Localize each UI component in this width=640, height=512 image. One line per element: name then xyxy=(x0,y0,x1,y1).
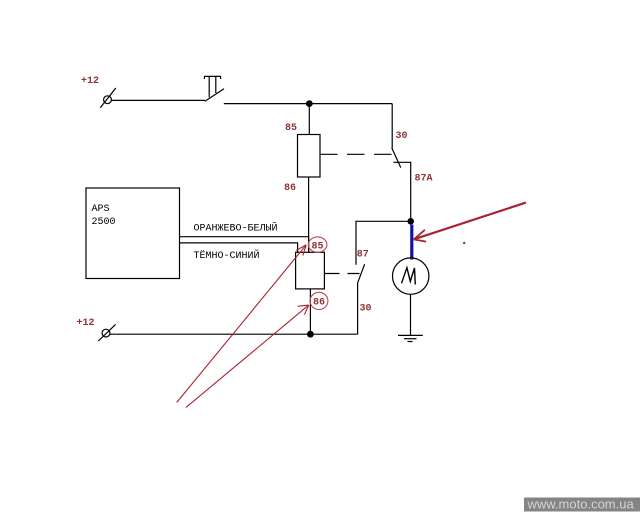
dark-blue wire from APS to K2 coil xyxy=(180,243,298,252)
svg-text:2500: 2500 xyxy=(92,217,116,228)
wire from push button to node A and relay K1 terminal 30 xyxy=(224,103,392,105)
svg-text:APS: APS xyxy=(92,204,110,215)
orange-white wire from APS to K2 pin 85 xyxy=(180,237,309,253)
motor M glyph xyxy=(402,268,416,285)
svg-text:+12: +12 xyxy=(81,76,99,87)
supply connector bottom (circle with slash) xyxy=(98,324,115,341)
svg-text:ОРАНЖЕВО-БЕЛЫЙ: ОРАНЖЕВО-БЕЛЫЙ xyxy=(194,221,278,235)
svg-text:85: 85 xyxy=(285,123,297,134)
motor M1 circle xyxy=(393,258,429,294)
wire from top connector to push button xyxy=(112,99,206,101)
wire K2 30 terminal down to bottom rail xyxy=(357,283,359,334)
junction node B (87A / motor / K2-87) xyxy=(407,218,414,225)
relay K1 coil xyxy=(298,135,321,178)
svg-text:87A: 87A xyxy=(415,174,433,185)
relay K2 coil xyxy=(296,252,325,289)
ground symbol xyxy=(398,335,423,341)
svg-text:85: 85 xyxy=(312,241,324,252)
push button SB1 xyxy=(204,76,224,101)
svg-text:ТЁМНО-СИНИЙ: ТЁМНО-СИНИЙ xyxy=(194,248,260,262)
junction node A xyxy=(306,100,313,107)
svg-text:86: 86 xyxy=(313,298,325,309)
circled label 85 (K2 coil) xyxy=(308,237,327,252)
circled label 86 (K2 coil) xyxy=(310,292,328,309)
wire K2 coil bottom to bottom rail xyxy=(309,289,311,334)
mechanical link K2 (dashed) xyxy=(325,273,360,275)
red annotation arrow to blue wire xyxy=(414,203,526,242)
K2 movable contact blade xyxy=(357,264,364,283)
wire K1 coil bottom down to K2 area xyxy=(308,177,310,252)
wire node B to K2 87 terminal xyxy=(356,221,411,264)
svg-text:86: 86 xyxy=(284,183,296,194)
svg-text:87: 87 xyxy=(357,250,369,261)
APS 2500 control unit box xyxy=(86,188,180,279)
wire node A down to K1 coil xyxy=(308,104,310,135)
svg-text:+12: +12 xyxy=(77,318,95,329)
K1 movable contact blade xyxy=(392,148,401,168)
blue wire to motor xyxy=(410,225,413,260)
mechanical link K1 (dashed) xyxy=(320,153,394,155)
bottom +12 rail wire xyxy=(110,333,358,335)
red annotation arrow to circled 86 xyxy=(186,305,309,407)
svg-text:30: 30 xyxy=(396,131,408,142)
K1 fixed contact 87A wire xyxy=(393,162,410,221)
red annotation arrow to circled 85 xyxy=(177,245,307,403)
watermark bar www.moto.com.ua xyxy=(524,498,640,512)
stray ink dot xyxy=(463,242,465,244)
svg-text:www.moto.com.ua: www.moto.com.ua xyxy=(527,497,635,512)
junction node C (K2 coil to rail) xyxy=(307,331,314,338)
wire 30 down (K1 contact common) xyxy=(391,104,393,149)
wire motor to ground xyxy=(410,294,412,335)
svg-text:30: 30 xyxy=(360,304,372,315)
supply connector top (circle with slash) xyxy=(100,88,116,108)
